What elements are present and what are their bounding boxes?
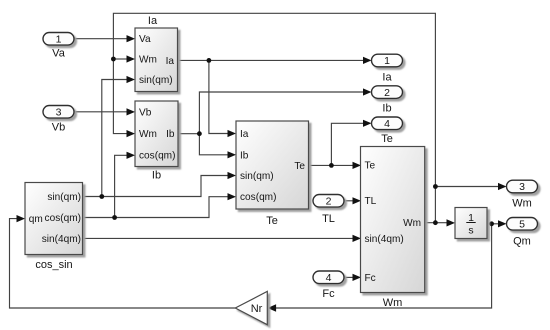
svg-text:Wm: Wm <box>512 197 532 209</box>
svg-text:2: 2 <box>384 87 390 99</box>
svg-text:Ia: Ia <box>148 15 158 27</box>
svg-text:1: 1 <box>384 55 390 67</box>
svg-text:Ib: Ib <box>152 170 161 182</box>
svg-text:Vb: Vb <box>52 121 65 133</box>
junction dot Te output <box>329 163 334 168</box>
svg-text:Ib: Ib <box>382 102 391 114</box>
svg-text:Fc: Fc <box>322 288 335 300</box>
svg-text:sin(qm): sin(qm) <box>139 75 173 86</box>
svg-text:Wm: Wm <box>383 297 403 309</box>
wire in1 Va to Ia.Va <box>74 35 135 42</box>
wire Ia output net: Ia.Ia to out1 and Te.Ia <box>178 57 372 137</box>
svg-text:cos(qm): cos(qm) <box>139 151 175 162</box>
junction dot cos(qm) <box>112 215 117 220</box>
svg-text:Te: Te <box>365 160 376 171</box>
wire in3 Vb to Ib.Vb <box>74 108 135 115</box>
svg-text:3: 3 <box>56 107 62 119</box>
wire Wm feedback: Wm output up over the top to Wm inputs of Ia and Ib <box>113 13 435 222</box>
block Ib subsystem <box>135 101 178 182</box>
wire sin(4qm): cos_sin.sin(4qm) to Wm.sin(4qm) <box>83 235 362 242</box>
wire Wm output branch to integrator and out3 <box>435 183 506 227</box>
wire cos(qm) net: cos_sin.cos(qm) to Te.cos(qm) and Ib.cos(qm) <box>83 152 237 218</box>
block Ia subsystem <box>135 15 178 92</box>
inport 1 Va <box>43 33 74 60</box>
wire in4 Fc to Wm.Fc <box>344 274 361 281</box>
svg-text:Fc: Fc <box>365 273 376 284</box>
svg-text:cos_sin: cos_sin <box>35 259 72 271</box>
svg-text:sin(qm): sin(qm) <box>240 171 274 182</box>
svg-text:Wm: Wm <box>139 55 157 66</box>
inport 3 Vb <box>43 106 74 134</box>
outport 3 Wm <box>507 180 538 209</box>
outport 4 Te <box>372 117 403 145</box>
svg-text:Ia: Ia <box>166 56 175 67</box>
svg-text:Ia: Ia <box>240 129 249 140</box>
wire Te output net: Te.Te to Wm.Te and out4 <box>309 120 372 169</box>
svg-text:Ia: Ia <box>382 71 392 83</box>
junction dot Ia output <box>207 58 212 63</box>
block Te subsystem <box>236 121 309 227</box>
outport 2 Ib <box>372 86 403 115</box>
wire sin(qm) net: cos_sin.sin(qm) to Te.sin(qm) and Ia.sin(qm) <box>83 76 237 197</box>
svg-text:Va: Va <box>139 34 151 45</box>
junction dot Wm out <box>433 220 438 225</box>
gain Nr (left-pointing triangle) <box>235 291 267 324</box>
svg-text:5: 5 <box>519 219 525 231</box>
junction dot Wm to out3 <box>433 184 438 189</box>
wire in2 TL to Wm.TL <box>344 197 361 204</box>
wire Nr output feedback to cos_sin.qm <box>10 215 236 308</box>
svg-text:TL: TL <box>365 196 377 207</box>
junction dot Wm-row Ia <box>111 57 116 62</box>
junction dot Ib output <box>197 131 202 136</box>
svg-text:TL: TL <box>322 213 335 225</box>
svg-text:Te: Te <box>266 215 278 227</box>
svg-text:Vb: Vb <box>139 107 152 118</box>
svg-text:Wm: Wm <box>403 218 421 229</box>
svg-text:s: s <box>468 225 473 237</box>
svg-text:4: 4 <box>326 272 332 284</box>
block cos_sin subsystem <box>25 183 83 271</box>
svg-text:qm: qm <box>29 214 43 225</box>
junction dot integrator output <box>489 221 494 226</box>
block integrator 1/s <box>455 208 487 239</box>
svg-text:Te: Te <box>294 161 305 172</box>
inport 2 TL <box>313 195 344 225</box>
svg-text:Va: Va <box>52 48 66 60</box>
svg-text:Nr: Nr <box>251 303 263 315</box>
svg-text:sin(qm): sin(qm) <box>47 192 81 203</box>
svg-text:Ib: Ib <box>240 150 249 161</box>
outport 1 Ia <box>372 54 403 83</box>
junction dot sin(qm) <box>99 194 104 199</box>
svg-text:Te: Te <box>381 133 393 145</box>
wire integrator output to out5 and down to Nr <box>268 220 507 311</box>
wire Ib output net: Ib.Ib to out2 and Te.Ib <box>178 88 372 158</box>
svg-text:Qm: Qm <box>513 236 531 248</box>
inport 4 Fc <box>313 271 344 300</box>
svg-text:3: 3 <box>519 181 525 193</box>
svg-text:Ib: Ib <box>166 129 175 140</box>
block Wm subsystem <box>361 147 425 310</box>
svg-text:4: 4 <box>384 118 390 130</box>
svg-text:cos(qm): cos(qm) <box>45 213 81 224</box>
svg-text:2: 2 <box>326 196 332 208</box>
svg-text:sin(4qm): sin(4qm) <box>365 234 404 245</box>
svg-text:sin(4qm): sin(4qm) <box>42 234 81 245</box>
svg-text:Wm: Wm <box>139 129 157 140</box>
svg-text:cos(qm): cos(qm) <box>240 192 276 203</box>
outport 5 Qm <box>507 218 538 248</box>
svg-text:1: 1 <box>56 34 62 46</box>
